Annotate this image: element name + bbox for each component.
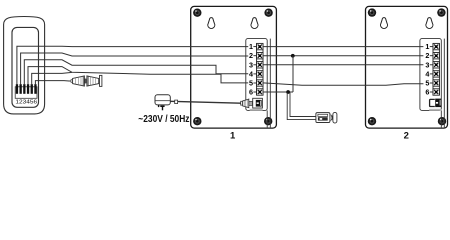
svg-text:2: 2: [425, 51, 429, 60]
connector J1 pins: [16, 84, 37, 94]
DC jack socket (loose, for unit 2): [333, 112, 337, 123]
connector J1 body (6-pin): [15, 87, 37, 99]
bus wire unit1-unit2 row2: [263, 55, 423, 57]
screw S7 (unit2 bottom-left): [368, 117, 376, 125]
screw S8 (unit2 bottom-right): [438, 117, 446, 125]
bus wire unit1-unit2 row4 (t5 to t5): [263, 83, 423, 85]
power cable (double line) to DC plug: [287, 93, 316, 120]
terminal 1-6 screw squares unit2: [433, 43, 439, 95]
unit 1 terminal strip box: [246, 39, 267, 111]
cord ferrite bump: [175, 100, 178, 104]
keyhole K1 (unit1 left): [208, 18, 215, 29]
terminal column rails unit1: [256, 43, 258, 95]
svg-text:6: 6: [249, 88, 253, 97]
svg-text:4: 4: [425, 69, 429, 78]
cord plug P2 (right half of inline coupler): [87, 75, 102, 86]
unit 2 enclosure: [366, 6, 448, 128]
screw S2 (unit1 top-right): [264, 9, 272, 17]
screw S4 (unit1 bottom-right): [264, 117, 272, 125]
screw S5 (unit2 top-left): [368, 8, 376, 16]
unit 1 side channel line: [269, 39, 271, 128]
svg-text:~230V / 50Hz: ~230V / 50Hz: [138, 114, 189, 125]
wire 3 (pin3 to unit1 terminal 4, step at x=216): [24, 60, 248, 85]
svg-text:4: 4: [249, 69, 253, 78]
svg-text:1: 1: [425, 42, 429, 51]
screw S6 (unit2 top-right): [437, 8, 445, 16]
unit 1 enclosure: [191, 6, 277, 128]
screw S3 (unit1 bottom-left): [193, 117, 201, 125]
svg-text:5: 5: [249, 79, 253, 88]
wire 2 (pin2 to unit1 terminal 2): [21, 53, 249, 84]
svg-text:2: 2: [249, 51, 253, 60]
power adapter PS1 mains prongs: [158, 105, 165, 110]
keyhole K4 (unit2 right): [426, 18, 433, 29]
unit1 terminal row labels and screws: [249, 42, 253, 96]
junction dot on row2: [291, 54, 295, 58]
wire from unit1 terminal 6: [263, 91, 293, 93]
tiny label under unit1 jack: [250, 109, 263, 111]
svg-text:5: 5: [425, 79, 429, 88]
bus wire unit1-unit2 row1: [263, 46, 423, 48]
unit2 terminal row labels and screws: [425, 42, 429, 96]
tap wire from row2 down to t6 line: [292, 56, 294, 92]
handset H1 inner panel: [12, 27, 39, 107]
handset H1 outer body: [4, 17, 45, 114]
unit1 DC jack: [253, 98, 263, 108]
DC plug P4 (into unit1 jack): [241, 99, 253, 108]
keyhole K3 (unit2 left): [381, 18, 388, 29]
svg-text:123456: 123456: [15, 100, 37, 106]
keyhole K2 (unit1 right): [251, 18, 258, 29]
cord plug P1 (left half of inline coupler): [71, 76, 86, 86]
terminal 1-6 screw squares unit1: [257, 43, 263, 95]
screw S1 (unit1 top-left): [193, 9, 201, 17]
terminal column rails unit2: [432, 43, 434, 95]
svg-text:1: 1: [249, 42, 253, 51]
svg-text:1: 1: [230, 131, 236, 139]
wire 5 (pin5 merging into bus 4): [32, 72, 72, 84]
DC plug P3 (for unit 2, unplugged): [316, 113, 332, 123]
power adapter cord to unit1: [170, 101, 241, 103]
svg-text:6: 6: [425, 88, 429, 97]
junction dot on t6 wire: [286, 90, 290, 94]
unit 2 side channel line: [443, 39, 445, 128]
svg-text:3: 3: [425, 60, 429, 69]
bus wire unit1-unit2 row3: [263, 64, 423, 66]
svg-text:2: 2: [404, 131, 409, 139]
power adapter PS1 body: [155, 95, 170, 105]
wire 1 (pin1 to unit1 terminal 1): [17, 46, 248, 84]
svg-text:3: 3: [249, 60, 253, 69]
tiny label under unit2 jack: [429, 109, 441, 111]
wire 6 (pin6 to cord plug P1): [35, 81, 71, 85]
unit2 DC jack icon: [430, 99, 442, 108]
wire 4 (pin4 merging into bus 4 to unit1 terminal 5, step at x=221): [28, 67, 248, 85]
unit 2 terminal strip box: [420, 39, 441, 111]
